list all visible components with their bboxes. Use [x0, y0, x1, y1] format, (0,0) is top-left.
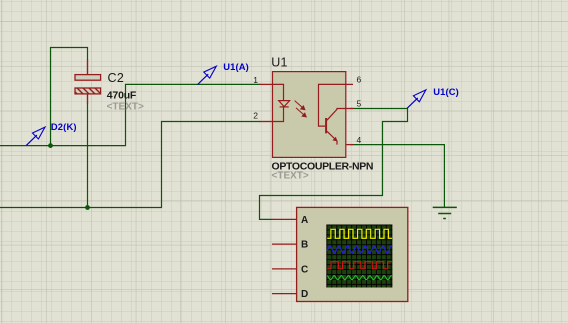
- capacitor C2 top plate: [75, 75, 101, 81]
- U1 internal transistor: [319, 84, 346, 144]
- U1 pin 4 stub: [346, 144, 353, 146]
- svg-text:U1(A): U1(A): [223, 61, 249, 72]
- op-to-coupler U1 body: [273, 72, 346, 158]
- terminal arrow D2(K): [26, 135, 37, 145]
- scope pin B stub: [272, 243, 297, 245]
- junction node B dot: [85, 205, 90, 210]
- capacitor C2 bottom lead (red): [87, 94, 89, 104]
- svg-text:D: D: [301, 289, 308, 300]
- capacitor C2 top lead (red): [87, 60, 89, 75]
- svg-text:2: 2: [253, 111, 258, 121]
- junction node A dot: [48, 143, 53, 148]
- U1 pin 2 stub: [260, 121, 273, 123]
- wire top rail from node A to capacitor top: [51, 48, 88, 146]
- svg-text:B: B: [301, 240, 308, 251]
- ground: [433, 207, 457, 218]
- svg-text:A: A: [301, 215, 308, 226]
- svg-text:470uF: 470uF: [107, 90, 137, 102]
- svg-text:4: 4: [357, 135, 362, 145]
- U1 pin 5 stub: [346, 108, 353, 110]
- oscilloscope body: [297, 207, 408, 301]
- svg-text:D2(K): D2(K): [51, 121, 77, 132]
- terminal arrow U1(A): [198, 74, 209, 84]
- U1 internal LED: [273, 84, 290, 121]
- U1 pin 6 stub: [346, 83, 353, 85]
- scope pin D stub: [272, 293, 297, 295]
- svg-text:6: 6: [357, 75, 362, 85]
- wire capacitor bottom to net B: [87, 103, 89, 208]
- wire net B horizontal to pin 2: [0, 122, 261, 208]
- terminal arrow U1(C): [407, 98, 418, 108]
- svg-text:1: 1: [253, 75, 258, 85]
- svg-text:U1: U1: [271, 56, 287, 70]
- U1 light arrows: [295, 101, 307, 117]
- wire pin5 to scope channel A: [260, 109, 408, 220]
- svg-text:C2: C2: [108, 71, 125, 85]
- svg-text:<TEXT>: <TEXT>: [107, 102, 144, 113]
- scope screen: [326, 225, 392, 288]
- wire pin4 to ground: [350, 145, 444, 207]
- svg-text:<TEXT>: <TEXT>: [272, 171, 309, 182]
- scope pin C stub: [272, 268, 297, 270]
- svg-text:U1(C): U1(C): [433, 86, 459, 97]
- wire net A horizontal to left edge: [0, 84, 261, 145]
- scope trace channel B (blue sine): [327, 246, 392, 253]
- scope trace channel D (green sine): [327, 276, 392, 280]
- scope trace channel C (red square): [327, 262, 392, 269]
- U1 pin 1 stub: [260, 83, 273, 85]
- svg-text:5: 5: [357, 98, 362, 108]
- capacitor C2 bottom plate (hatched): [75, 88, 101, 94]
- svg-text:C: C: [301, 264, 308, 275]
- scope trace channel A (yellow square): [327, 229, 392, 238]
- scope pin A stub: [272, 218, 297, 220]
